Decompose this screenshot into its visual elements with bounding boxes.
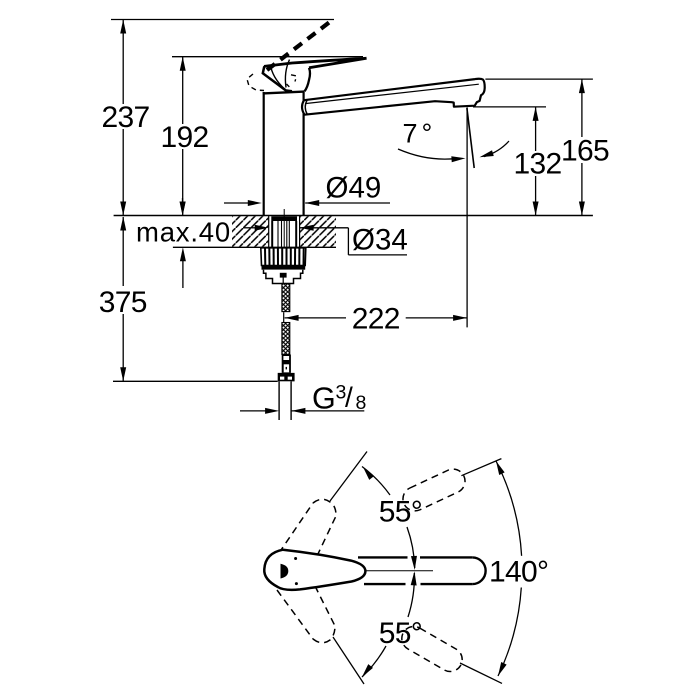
svg-text:7°: 7° bbox=[403, 119, 437, 149]
countertop hatching left of hole bbox=[232, 216, 269, 246]
handle grip bulb (top view) bbox=[264, 550, 365, 590]
extension line: hose nut (375 bottom) bbox=[113, 380, 278, 382]
svg-text:max.40: max.40 bbox=[136, 217, 231, 248]
svg-text:55°: 55° bbox=[379, 495, 422, 528]
adapter fitting below nut bbox=[264, 270, 303, 284]
extension line: top of raised lever bbox=[111, 19, 334, 21]
extension line: aerator bottom (132) bbox=[473, 106, 546, 108]
rotated lever end upper (dashed capsule) bbox=[399, 465, 469, 515]
label 7 degrees with leaders bbox=[398, 119, 509, 163]
svg-text:192: 192 bbox=[161, 121, 209, 154]
dimension 192 bbox=[161, 57, 209, 216]
svg-text:165: 165 bbox=[561, 134, 609, 167]
svg-text:132: 132 bbox=[514, 148, 562, 181]
supply hose upper braided section bbox=[282, 284, 290, 312]
mounting nut (knurled) bbox=[261, 248, 306, 270]
dimension 222 bbox=[285, 302, 468, 335]
handle centre line bbox=[364, 570, 433, 572]
dimension diameter 49 bbox=[224, 172, 390, 207]
faucet body column bbox=[263, 92, 305, 216]
dimension max.40 bbox=[136, 198, 231, 288]
rotated grip position upper (dashed) bbox=[279, 499, 336, 556]
hose end nut bbox=[278, 373, 295, 382]
svg-text:Ø49: Ø49 bbox=[326, 172, 382, 205]
arc 55 upper with arrows bbox=[361, 465, 422, 570]
arc 140 with arrows bbox=[489, 460, 548, 678]
supply hose lower braided section bbox=[282, 323, 290, 355]
svg-text:140°: 140° bbox=[489, 556, 548, 589]
water stream reference line (vertical) bbox=[466, 107, 468, 327]
rotated grip position lower (dashed) bbox=[277, 586, 335, 643]
dimension G3/8 bbox=[240, 381, 366, 415]
mounting shank with threads bbox=[271, 216, 297, 247]
radius line lower 55 bbox=[333, 637, 364, 684]
radius line lower 140 bbox=[460, 663, 502, 683]
svg-text:375: 375 bbox=[99, 286, 147, 319]
svg-text:222: 222 bbox=[352, 302, 400, 335]
lever raised position (dashed) bbox=[247, 21, 331, 91]
extension line: spout top (165) bbox=[485, 78, 593, 80]
radius line upper 140 bbox=[461, 459, 501, 476]
spout bbox=[302, 79, 485, 115]
countertop hatching right of hole bbox=[300, 216, 336, 246]
hole edges in countertop bbox=[268, 216, 270, 248]
centre axis tick bbox=[283, 209, 285, 252]
hose crimp fitting bbox=[282, 355, 291, 373]
countertop bottom line bbox=[173, 246, 336, 248]
connection pipe G3/8 bbox=[279, 381, 291, 420]
radius line upper 55 bbox=[330, 452, 367, 502]
svg-text:55°: 55° bbox=[379, 617, 422, 650]
lever handle (side view) bbox=[263, 58, 367, 91]
svg-text:Ø34: Ø34 bbox=[352, 224, 408, 257]
hose break mark bbox=[283, 312, 285, 322]
rotated lever end lower (dashed capsule) bbox=[397, 622, 466, 676]
svg-text:237: 237 bbox=[102, 101, 150, 134]
svg-text:8: 8 bbox=[356, 392, 367, 414]
dimension 237 bbox=[102, 20, 150, 216]
dimension diameter 34 with leader bbox=[243, 224, 408, 257]
dimension 165 bbox=[561, 79, 609, 215]
arc 55 lower with arrows bbox=[360, 571, 422, 679]
dimension 132 bbox=[514, 107, 562, 216]
countertop surface line bbox=[114, 215, 593, 217]
extension line: top of lever at rest bbox=[172, 56, 363, 58]
handle lever bar (top view) bbox=[358, 557, 486, 584]
svg-text:/: / bbox=[345, 382, 353, 413]
svg-text:G: G bbox=[312, 381, 336, 415]
dimension 375 bbox=[99, 217, 147, 382]
water stream 7 degree line bbox=[467, 108, 474, 168]
